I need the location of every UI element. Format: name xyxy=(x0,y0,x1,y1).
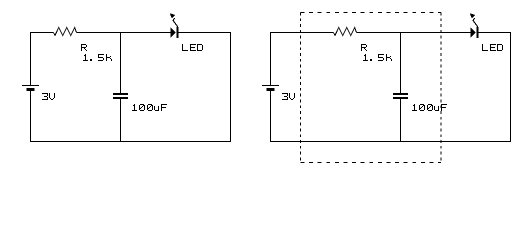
wire: top rail right of LED (2) xyxy=(479,32,511,34)
value label 1.5k (2) xyxy=(363,54,392,61)
label LED (1) xyxy=(182,44,203,51)
wire: left side above battery (1) xyxy=(30,32,32,85)
wire: top rail between resistor and LED (2) xyxy=(357,32,471,34)
battery 3V 1 negative plate xyxy=(27,88,35,91)
wire: top rail right of LED (1) xyxy=(179,32,231,34)
label R (1) xyxy=(81,44,87,51)
value label 3V (2) xyxy=(282,93,295,100)
capacitor C 1 (100uF) bottom plate xyxy=(113,97,128,99)
dashed selection box around resistor and capacitor (right circuit) xyxy=(301,13,442,163)
LED D2 cathode bar xyxy=(477,27,479,38)
battery 3V 2 negative plate xyxy=(267,88,275,91)
battery 3V 1 positive plate xyxy=(22,85,39,87)
label R (2) xyxy=(361,44,367,51)
wire: middle branch below capacitor (1) xyxy=(120,99,122,142)
wire: right side (2) xyxy=(510,32,512,142)
wire: left side below battery (2) xyxy=(270,91,272,142)
label LED (2) xyxy=(482,44,503,51)
resistor R 1 (1.5k) zigzag xyxy=(54,28,77,36)
wire: bottom rail (2) xyxy=(270,141,511,143)
value label 3V (1) xyxy=(42,93,55,100)
resistor R 2 (1.5k) zigzag xyxy=(334,28,357,36)
wire: middle branch above capacitor (2) xyxy=(400,33,402,94)
value label 100uF (1) xyxy=(132,104,167,111)
wire: top rail left segment (2) xyxy=(271,32,334,34)
wire: bottom rail (1) xyxy=(30,141,231,143)
wire: right side (1) xyxy=(230,32,232,142)
LED D1 triangle (anode) xyxy=(171,28,177,38)
value label 1.5k (1) xyxy=(83,54,112,61)
wire: middle branch above capacitor (1) xyxy=(120,33,122,94)
capacitor C 2 (100uF) bottom plate xyxy=(393,97,408,99)
LED D2 triangle (anode) xyxy=(471,28,477,38)
wire: left side above battery (2) xyxy=(270,32,272,85)
capacitor C 1 (100uF) top plate xyxy=(113,93,128,95)
wire: left side below battery (1) xyxy=(30,91,32,142)
LED D2 light emission arrow xyxy=(473,18,478,27)
wire: top rail between resistor and LED (1) xyxy=(77,32,171,34)
battery 3V 2 positive plate xyxy=(262,85,279,87)
LED D1 light emission arrow xyxy=(173,18,178,27)
value label 100uF (2) xyxy=(412,104,447,111)
LED D1 cathode bar xyxy=(177,27,179,38)
wire: top rail left segment (1) xyxy=(31,32,54,34)
wire: middle branch below capacitor (2) xyxy=(400,99,402,142)
capacitor C 2 (100uF) top plate xyxy=(393,93,408,95)
